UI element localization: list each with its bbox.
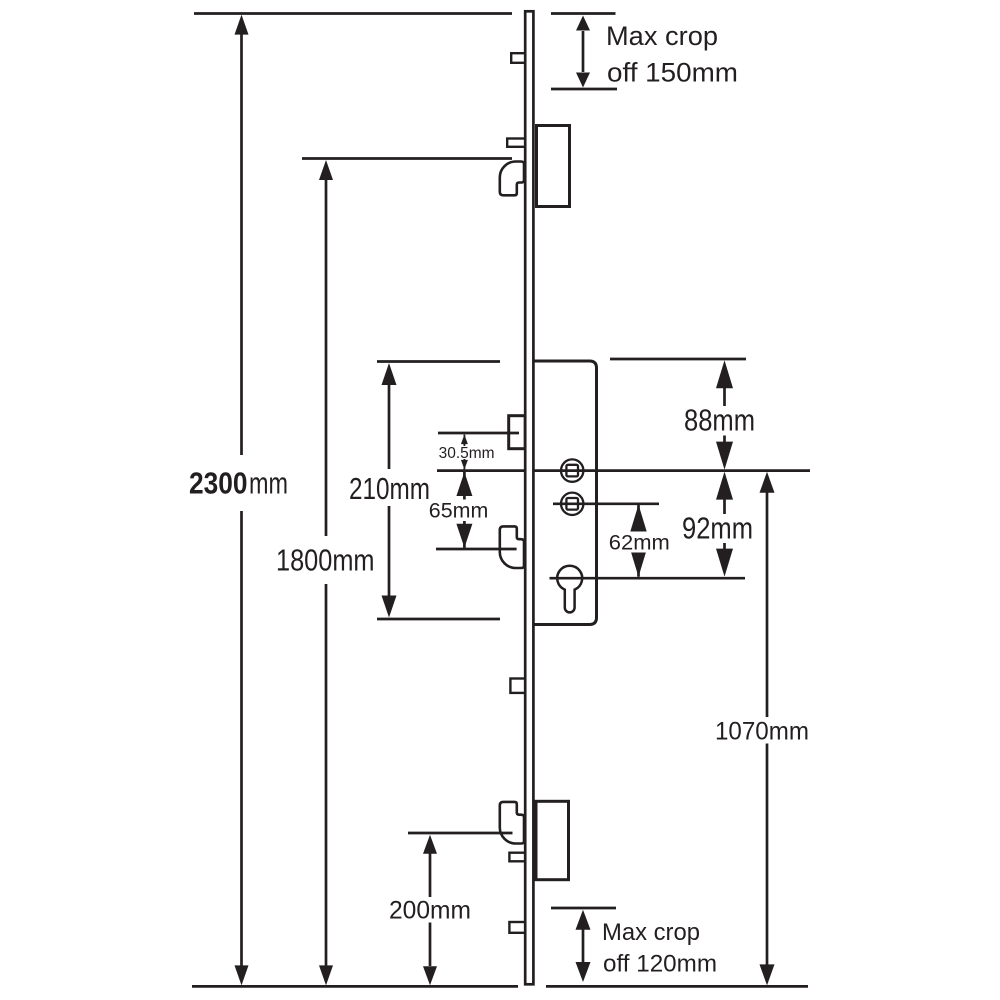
spindle hole S2	[561, 493, 583, 515]
dim 65mm	[456, 472, 472, 548]
dim 88mm	[716, 360, 733, 469]
hook bolt centre	[500, 526, 524, 568]
svg-text:Max crop: Max crop	[602, 919, 700, 946]
euro cylinder keyhole	[557, 566, 582, 613]
svg-text:Max crop: Max crop	[606, 21, 718, 51]
bottom datum line right	[546, 985, 808, 988]
dim max crop 120	[576, 910, 591, 982]
faceplate bar	[525, 11, 533, 984]
max crop 120 top line	[551, 907, 616, 910]
svg-text:92mm: 92mm	[682, 511, 753, 546]
hook bolt top	[500, 162, 524, 196]
svg-text:65mm: 65mm	[429, 499, 489, 523]
svg-text:88mm: 88mm	[684, 403, 755, 438]
dim 210mm	[382, 363, 397, 618]
dim 62mm	[630, 505, 647, 577]
keyhole centerline	[550, 577, 746, 580]
dim 2300mm	[235, 15, 249, 986]
svg-text:210mm: 210mm	[349, 471, 430, 506]
max crop 150 bottom line	[551, 88, 617, 91]
210 bottom line	[377, 618, 500, 621]
gearbox case U1	[528, 361, 597, 625]
spindle hole S1	[561, 459, 583, 481]
hook bolt bottom	[500, 802, 524, 844]
roller tab 3	[510, 679, 525, 693]
top datum line	[194, 12, 512, 15]
200 top line	[408, 832, 513, 835]
dim 1800mm	[319, 160, 333, 985]
svg-text:mm: mm	[249, 466, 288, 501]
dim 1070mm	[760, 472, 775, 986]
svg-text:off 150mm: off 150mm	[607, 57, 738, 87]
dim 200mm	[423, 835, 437, 985]
210 top line	[377, 360, 500, 363]
keep box top	[537, 126, 570, 207]
svg-text:30.5mm: 30.5mm	[439, 445, 495, 462]
svg-text:62mm: 62mm	[609, 530, 670, 554]
lower spindle line	[553, 502, 659, 505]
latch tab (30.5mm)	[509, 416, 526, 449]
1800 datum line	[302, 157, 512, 160]
spindle centerline	[437, 469, 810, 472]
keep box bottom	[536, 801, 569, 879]
65 bottom line	[436, 548, 517, 551]
svg-text:off 120mm: off 120mm	[603, 951, 717, 978]
roller tab 2	[507, 139, 525, 147]
roller tab 1	[511, 53, 525, 63]
roller tab 4	[509, 853, 525, 862]
roller tab 5	[509, 922, 525, 933]
max crop 150 top line	[551, 12, 616, 15]
88 top line	[610, 358, 746, 361]
dim 30.5mm	[461, 435, 468, 470]
dim max crop 150	[576, 16, 590, 88]
svg-text:200mm: 200mm	[389, 897, 471, 925]
svg-text:2300: 2300	[189, 466, 248, 501]
svg-text:1070mm: 1070mm	[715, 718, 809, 746]
text knockouts	[185, 406, 813, 923]
svg-text:1800mm: 1800mm	[276, 543, 375, 578]
bottom datum line left	[192, 985, 518, 988]
dim 92mm	[716, 472, 733, 577]
30.5 top line	[438, 432, 519, 435]
